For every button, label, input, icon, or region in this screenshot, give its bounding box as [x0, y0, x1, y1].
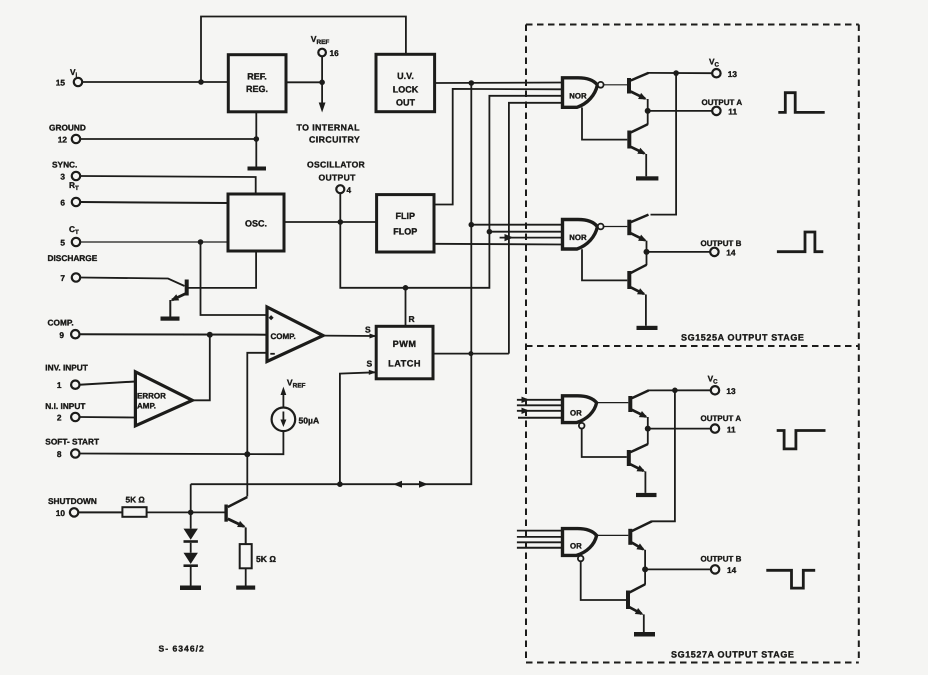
node junction shutdown base [188, 510, 194, 516]
svg-text:4: 4 [347, 185, 352, 195]
svg-text:AMP.: AMP. [137, 402, 156, 411]
waveform output A 1525 [778, 93, 824, 113]
ground symbol under REF REG [248, 167, 267, 171]
op-amp ERROR AMP [135, 372, 192, 426]
resistor R1 5K [122, 495, 146, 517]
wire vref to internal circuitry arrow [319, 57, 326, 113]
node junction CT [198, 239, 204, 245]
wire S2 vertical from shutdown line [340, 372, 375, 484]
svg-text:50µA: 50µA [299, 416, 320, 426]
svg-text:14: 14 [726, 248, 736, 258]
pin 1 INV INPUT [45, 363, 88, 391]
transistor Q2 shutdown [224, 497, 247, 544]
diode D1 [184, 512, 198, 542]
op-amp comparator COMP [267, 307, 323, 362]
svg-text:SYNC.: SYNC. [52, 160, 77, 170]
node junction UV output [469, 80, 475, 86]
svg-text:15: 15 [56, 78, 66, 88]
wire output A upper [648, 110, 713, 112]
wire soft start line [80, 431, 284, 454]
pin 6 RT [60, 180, 80, 208]
pin 2 NI INPUT [45, 401, 85, 423]
pin 13 VC lower [708, 374, 736, 396]
pin 5 CT [60, 224, 80, 248]
gate NOR A [563, 78, 604, 108]
node junction emitter B lower [642, 566, 648, 572]
node junction S2 [337, 481, 343, 487]
pin 9 COMP [48, 318, 80, 340]
node junction emitter A upper [645, 108, 651, 114]
pin 15 Vi [56, 67, 82, 88]
svg-text:NOR: NOR [569, 233, 587, 242]
node junction pwm output [468, 351, 473, 356]
wire base node up to shutdown rail [190, 484, 192, 512]
svg-text:NOR: NOR [569, 91, 587, 100]
pin 8 SOFT-START [45, 437, 99, 460]
wire error amp output up to comp node [192, 335, 210, 401]
svg-text:S: S [365, 325, 371, 335]
wire OR A output [597, 402, 629, 404]
wire output B lower [645, 568, 711, 570]
svg-text:OUT: OUT [396, 98, 416, 108]
wire soft start down to shutdown collector [246, 454, 248, 496]
pin 12 GROUND [49, 123, 86, 145]
diode D2 [184, 543, 198, 567]
node junction osc output [338, 219, 344, 225]
label to internal circuitry [297, 123, 361, 145]
wire comparator minus input down [247, 353, 267, 454]
svg-text:ERROR: ERROR [137, 392, 166, 401]
transistor Q10 outputB bottom 1527 [581, 561, 645, 632]
svg-text:OSCILLATOR: OSCILLATOR [307, 160, 366, 170]
transistor Q9 outputB top 1527 [628, 521, 652, 569]
svg-text:OR: OR [570, 541, 582, 550]
wire comp pin to comparator [80, 333, 268, 336]
svg-text:OSC.: OSC. [245, 219, 267, 229]
svg-text:S: S [367, 359, 373, 369]
svg-text:SHUTDOWN: SHUTDOWN [48, 496, 97, 506]
node junction R reset [403, 285, 409, 291]
svg-text:PWM: PWM [393, 339, 417, 349]
wire output B upper [647, 251, 711, 253]
wire NOR B input1 [471, 224, 564, 226]
svg-text:COMP.: COMP. [271, 332, 296, 341]
wire osc blanking line down and right [340, 96, 564, 288]
ground symbol Q4 emitter [636, 176, 658, 180]
arrow into S2 input [369, 370, 377, 375]
svg-text:REF.: REF. [247, 72, 267, 82]
svg-text:13: 13 [726, 386, 736, 396]
pin 10 SHUTDOWN [48, 496, 97, 518]
svg-text:S- 6346/2: S- 6346/2 [159, 644, 205, 654]
svg-text:LATCH: LATCH [388, 359, 421, 369]
pin 16 VREF [311, 34, 339, 58]
svg-text:TO INTERNAL: TO INTERNAL [297, 123, 361, 133]
gate NOR B [563, 220, 604, 250]
node junction emitter B upper [644, 249, 650, 255]
ground symbol Q6 emitter [637, 326, 658, 330]
wire PWM output up to NOR gates [509, 103, 564, 354]
ground symbol Q10 emitter [634, 632, 655, 637]
wire ref reg bottom down [255, 112, 257, 167]
waveform output A 1527 [777, 431, 826, 449]
wire shutdown pin to resistor [78, 511, 122, 513]
svg-text:N.I. INPUT: N.I. INPUT [45, 401, 85, 411]
transistor Q1 discharge [170, 280, 188, 317]
wire output A lower [648, 428, 711, 430]
svg-text:8: 8 [57, 449, 62, 459]
svg-text:SOFT- START: SOFT- START [45, 437, 99, 447]
svg-text:REG.: REG. [246, 84, 268, 94]
svg-text:DISCHARGE: DISCHARGE [48, 253, 98, 263]
arrow into S input [370, 334, 377, 339]
wire inv input to error amp [80, 382, 136, 385]
wire diode to ground [190, 567, 192, 586]
node junction NOR B in1 [469, 222, 475, 228]
wire NOR B input2 [489, 231, 564, 233]
svg-text:5: 5 [60, 238, 65, 248]
wire OSC output to FLIP FLOP [284, 221, 377, 223]
svg-text:11: 11 [727, 424, 736, 434]
dashed box output stages [526, 25, 859, 663]
svg-text:13: 13 [728, 69, 738, 79]
pin 4 oscillator output [307, 160, 366, 196]
svg-text:9: 9 [59, 330, 64, 340]
waveform output B 1525 [777, 232, 823, 252]
node junction ground [253, 136, 259, 142]
ground symbol discharge emitter [161, 317, 180, 321]
svg-text:LOCK: LOCK [393, 85, 419, 95]
wire OR B output [597, 534, 629, 536]
wire R input of PWM latch [405, 288, 407, 327]
svg-text:OUTPUT B: OUTPUT B [701, 239, 742, 248]
wire CT to OSC [80, 241, 228, 243]
svg-text:2: 2 [57, 413, 62, 423]
wire VC rail upper [651, 73, 677, 215]
wire comparator output to S [323, 335, 375, 337]
wire RT to OSC [80, 202, 228, 203]
svg-text:OUTPUT A: OUTPUT A [701, 414, 742, 423]
svg-text:3: 3 [60, 172, 65, 182]
svg-text:OUTPUT A: OUTPUT A [702, 98, 743, 107]
pin 13 VC upper [709, 57, 737, 80]
wire top loop [201, 17, 406, 83]
transistor Q7 outputA top 1527 [628, 390, 648, 428]
block REF REG [228, 55, 286, 112]
block FLIP FLOP [377, 195, 434, 252]
current source 50uA [272, 408, 320, 432]
svg-text:OUTPUT B: OUTPUT B [701, 555, 742, 564]
ground symbol R2 [236, 586, 255, 590]
block UV LOCK OUT [376, 54, 435, 111]
block PWM LATCH [376, 326, 433, 379]
node junction emitter A lower [645, 426, 651, 432]
svg-text:10: 10 [56, 508, 66, 518]
svg-text:14: 14 [727, 565, 737, 575]
arrowheads on shutdown line [393, 481, 402, 488]
wire UV node down to PWM output node [470, 83, 472, 354]
svg-text:FLIP: FLIP [396, 211, 416, 221]
svg-text:FLOP: FLOP [393, 227, 417, 237]
wire REF REG output [286, 81, 322, 83]
svg-text:7: 7 [60, 273, 65, 283]
wire vref arrow above current source [281, 378, 306, 408]
node junction NOR B in2 [487, 229, 493, 235]
svg-text:R: R [409, 314, 415, 324]
transistor Q5 outputB top [627, 215, 648, 252]
transistor Q4 outputA bottom [582, 108, 648, 177]
transistor Q3 outputA top [627, 73, 649, 111]
svg-text:16: 16 [330, 48, 340, 58]
svg-text:11: 11 [728, 107, 737, 117]
pin 14 OUTPUT B upper [701, 239, 742, 258]
svg-text:6: 6 [60, 198, 65, 208]
wire pin4 to osc line [339, 193, 341, 222]
ground symbol diodes [180, 586, 201, 591]
wire Vi to REF REG [82, 81, 228, 83]
node junction soft start [244, 451, 250, 457]
wire discharge to transistor base [80, 278, 184, 287]
node junction Vi / top wire [198, 79, 204, 85]
wire discharge collector to OSC bottom [188, 251, 256, 288]
wire resistor R2 to ground [245, 568, 247, 585]
svg-text:OUTPUT: OUTPUT [319, 173, 357, 183]
wire CT down to comparator plus input [201, 242, 268, 315]
node junction comp / error amp [207, 332, 213, 338]
wire VC line upper [648, 72, 712, 74]
resistor R2 5K [240, 544, 277, 568]
svg-text:1: 1 [57, 380, 62, 390]
pin 3 SYNC [52, 160, 80, 182]
wire PWM latch output [433, 353, 509, 355]
wire resistor to base junction [147, 511, 226, 513]
block OSC [228, 194, 284, 251]
svg-text:INV. INPUT: INV. INPUT [45, 363, 88, 373]
svg-text:SG1525A OUTPUT STAGE: SG1525A OUTPUT STAGE [681, 333, 805, 343]
pin 11 OUTPUT A lower [701, 414, 742, 434]
ground symbol Q8 emitter [636, 493, 657, 497]
wire NOR A output [604, 84, 628, 86]
wire VC rail lower [652, 390, 675, 521]
wire ni input to error amp [80, 416, 136, 419]
wire node down to shutdown line [191, 354, 472, 485]
transistor Q6 outputB bottom [582, 249, 647, 326]
svg-text:CIRCUITRY: CIRCUITRY [309, 135, 360, 145]
wire ground pin to ref reg bottom [80, 138, 256, 140]
svg-text:COMP.: COMP. [48, 318, 74, 328]
node junction vref [319, 80, 325, 86]
node junction VC lower [672, 388, 678, 394]
svg-text:GROUND: GROUND [49, 123, 86, 133]
gate OR B 1527 [517, 529, 597, 562]
wire sync to osc top [80, 176, 255, 194]
wire NOR B input3 with arrow [500, 234, 564, 241]
svg-text:SG1527A OUTPUT STAGE: SG1527A OUTPUT STAGE [671, 650, 795, 660]
pin 11 OUTPUT A upper [702, 98, 743, 117]
wire NOR B output [604, 226, 628, 228]
wire UV lockout output to NOR A [435, 82, 564, 85]
gate OR A 1527 [517, 396, 597, 429]
pin 7 DISCHARGE [48, 253, 98, 283]
svg-text:OR: OR [570, 409, 582, 418]
svg-text:5K Ω: 5K Ω [256, 554, 276, 564]
wire FF Qbar output to NOR B [434, 243, 564, 246]
pin 14 OUTPUT B lower [701, 555, 742, 575]
svg-text:5K Ω: 5K Ω [126, 495, 146, 505]
wire VC line lower [648, 389, 711, 391]
node junction VC upper [673, 70, 679, 76]
svg-text:12: 12 [58, 135, 68, 145]
svg-text:U.V.: U.V. [397, 71, 414, 81]
wire FF Q output to NOR A [434, 89, 564, 205]
transistor Q8 outputA bottom 1527 [582, 429, 648, 493]
waveform output B 1527 [766, 570, 815, 588]
